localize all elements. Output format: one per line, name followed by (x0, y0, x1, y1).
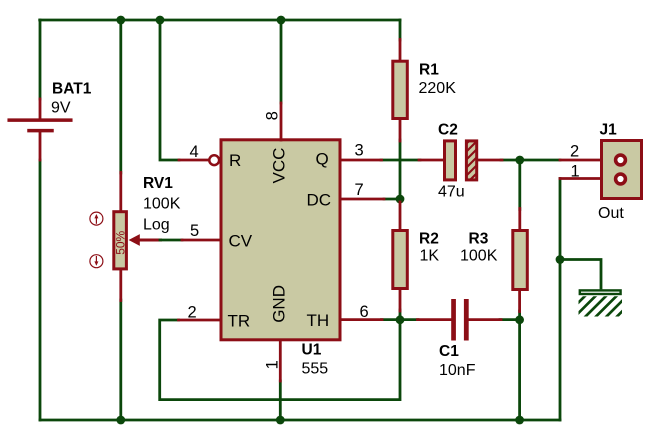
battery BAT1 (9, 99, 71, 160)
pin 7 DC stub (341, 198, 384, 201)
node top rail RV1 (116, 16, 125, 25)
wire GND drop (279, 381, 282, 420)
resistor R1 (399, 40, 402, 62)
pin 6 TH stub (341, 318, 382, 321)
wire RV1 bottom (119, 300, 122, 420)
pin 1 GND stub (279, 341, 282, 381)
wire Q output (381, 159, 420, 162)
capacitor C1 (418, 318, 452, 321)
node ground branch (556, 255, 565, 264)
svg-text:Log: Log (143, 217, 170, 234)
node top rail reset (156, 16, 165, 25)
node bottom rail GND (276, 416, 285, 425)
wire RV1 top (119, 20, 122, 173)
pin 4 R stub (179, 159, 209, 162)
svg-text:R2: R2 (419, 231, 439, 248)
node output C2 R3 J1 (515, 156, 524, 165)
svg-text:555: 555 (302, 361, 329, 378)
svg-text:47u: 47u (438, 184, 465, 201)
resistor R2 (399, 202, 402, 231)
svg-text:C1: C1 (439, 343, 459, 360)
svg-text:R: R (229, 151, 241, 170)
wire C1 right link (500, 318, 520, 321)
wire bottom rail (40, 419, 560, 422)
svg-text:1K: 1K (420, 248, 440, 265)
svg-text:50%: 50% (113, 230, 127, 254)
svg-text:J1: J1 (600, 122, 618, 139)
pin 4 inversion bubble (209, 155, 219, 165)
svg-text:2: 2 (570, 143, 579, 161)
svg-text:1: 1 (571, 163, 580, 181)
svg-text:8: 8 (264, 111, 282, 120)
svg-text:10nF: 10nF (439, 362, 476, 379)
wire R2 bottom link (399, 310, 402, 320)
svg-text:RV1: RV1 (143, 175, 173, 192)
wire R3 bottom link (518, 311, 521, 320)
node top rail VCC (277, 16, 286, 25)
capacitor C2 polarized (419, 159, 444, 162)
svg-text:CV: CV (229, 232, 253, 251)
wire R3 top link (518, 160, 521, 210)
svg-text:9V: 9V (51, 100, 71, 117)
wire J1 pin1 drop (559, 179, 562, 421)
svg-text:VCC: VCC (270, 148, 289, 184)
wire R3 to rail (518, 320, 521, 420)
wire R1 top link (399, 20, 402, 40)
svg-text:2: 2 (188, 304, 197, 322)
wire left vertical bottom (39, 160, 42, 420)
node TH R2 C1 (396, 315, 405, 324)
pin 5 CV stub (182, 239, 220, 242)
wire top rail (40, 19, 400, 22)
pin 3 Q stub (341, 159, 382, 162)
svg-text:4: 4 (190, 143, 199, 161)
svg-text:TH: TH (307, 311, 330, 330)
wire reset net (160, 20, 179, 160)
wire C2 to J1 (501, 159, 560, 162)
node bottom rail RV1 (116, 416, 125, 425)
wire pin7 link (384, 198, 400, 201)
svg-text:BAT1: BAT1 (52, 81, 92, 98)
svg-text:Q: Q (316, 150, 329, 169)
svg-text:5: 5 (190, 222, 199, 240)
potentiometer RV1 (90, 173, 161, 301)
svg-text:TR: TR (228, 311, 251, 330)
svg-text:7: 7 (355, 181, 364, 199)
pin 8 VCC stub (280, 103, 283, 140)
wire CV green segment (160, 239, 182, 242)
svg-text:R1: R1 (419, 62, 439, 79)
node DC R1 R2 (396, 195, 405, 204)
svg-text:6: 6 (360, 303, 369, 321)
node bottom rail R3 (515, 416, 524, 425)
pin 2 TR stub (179, 319, 221, 322)
ground (562, 290, 641, 319)
svg-text:3: 3 (355, 142, 364, 160)
wire ground branch (560, 260, 601, 289)
wire left vertical top (39, 20, 42, 99)
svg-text:220K: 220K (419, 80, 457, 97)
svg-text:1: 1 (264, 360, 282, 369)
wire R1 bottom link (399, 140, 402, 199)
wire TR loop (160, 316, 400, 400)
wire TH link (382, 318, 419, 321)
svg-text:Out: Out (598, 205, 624, 222)
resistor R3 (518, 209, 521, 232)
svg-text:100K: 100K (460, 248, 498, 265)
node C1 R3 (515, 315, 524, 324)
svg-text:DC: DC (307, 191, 332, 210)
connector J1 (560, 159, 601, 162)
svg-text:R3: R3 (469, 231, 489, 248)
svg-text:GND: GND (270, 285, 289, 323)
svg-text:C2: C2 (438, 122, 458, 139)
svg-text:100K: 100K (143, 196, 181, 213)
svg-text:U1: U1 (302, 342, 322, 359)
op-amp U1 555 timer body (221, 140, 340, 340)
wire VCC drop (280, 20, 283, 103)
